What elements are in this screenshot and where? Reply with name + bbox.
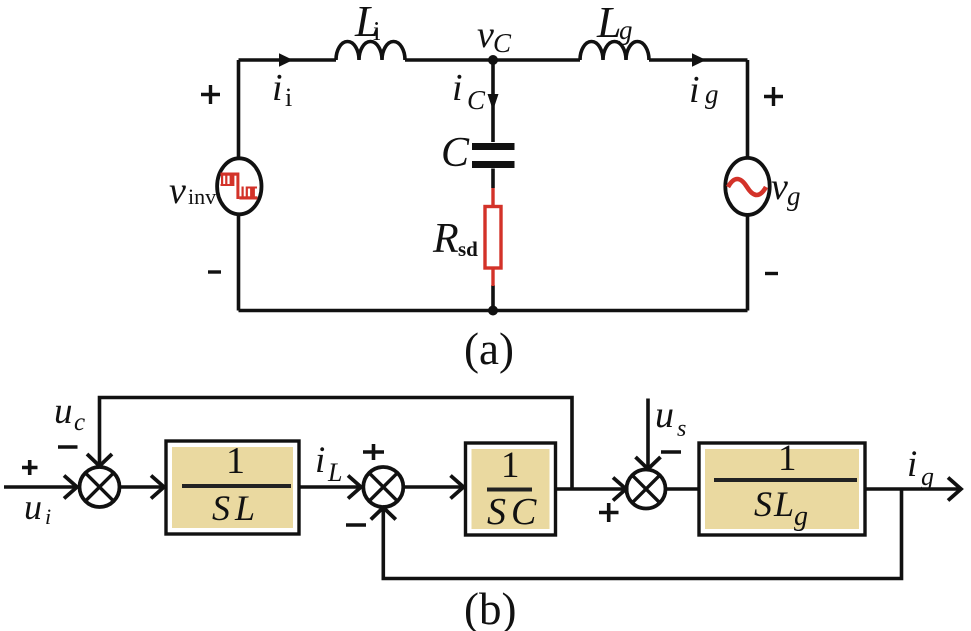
svg-text:g: g	[705, 79, 719, 109]
svg-text:g: g	[787, 181, 801, 211]
svg-text:g: g	[794, 501, 808, 532]
svg-text:i: i	[689, 69, 700, 111]
svg-text:SC: SC	[487, 491, 541, 533]
svg-text:u: u	[24, 487, 42, 527]
svg-text:1: 1	[778, 438, 797, 479]
svg-text:i: i	[452, 67, 463, 109]
svg-text:i: i	[315, 440, 325, 481]
svg-text:v: v	[169, 170, 186, 212]
svg-text:L: L	[327, 458, 342, 487]
svg-text:(b): (b)	[464, 584, 516, 631]
svg-text:L: L	[596, 0, 621, 47]
svg-text:1: 1	[501, 445, 520, 486]
svg-text:C: C	[467, 85, 486, 115]
svg-text:v: v	[477, 14, 494, 56]
svg-text:c: c	[74, 409, 85, 436]
svg-text:SL: SL	[212, 488, 260, 528]
svg-text:u: u	[655, 394, 674, 436]
svg-text:u: u	[54, 391, 73, 432]
svg-text:s: s	[677, 416, 686, 442]
svg-text:C: C	[493, 28, 512, 58]
svg-text:g: g	[619, 15, 633, 45]
svg-text:i: i	[272, 67, 283, 109]
svg-text:i: i	[373, 16, 381, 46]
svg-text:sd: sd	[458, 237, 478, 261]
svg-text:i: i	[285, 83, 292, 112]
svg-text:C: C	[441, 130, 470, 176]
svg-text:inv: inv	[188, 184, 216, 209]
svg-text:(a): (a)	[464, 324, 514, 374]
svg-text:i: i	[45, 504, 51, 529]
svg-text:1: 1	[226, 440, 245, 482]
svg-text:i: i	[907, 444, 917, 485]
svg-text:g: g	[921, 462, 934, 491]
svg-text:SL: SL	[754, 484, 796, 524]
svg-text:v: v	[771, 166, 788, 208]
svg-text:R: R	[432, 216, 459, 262]
